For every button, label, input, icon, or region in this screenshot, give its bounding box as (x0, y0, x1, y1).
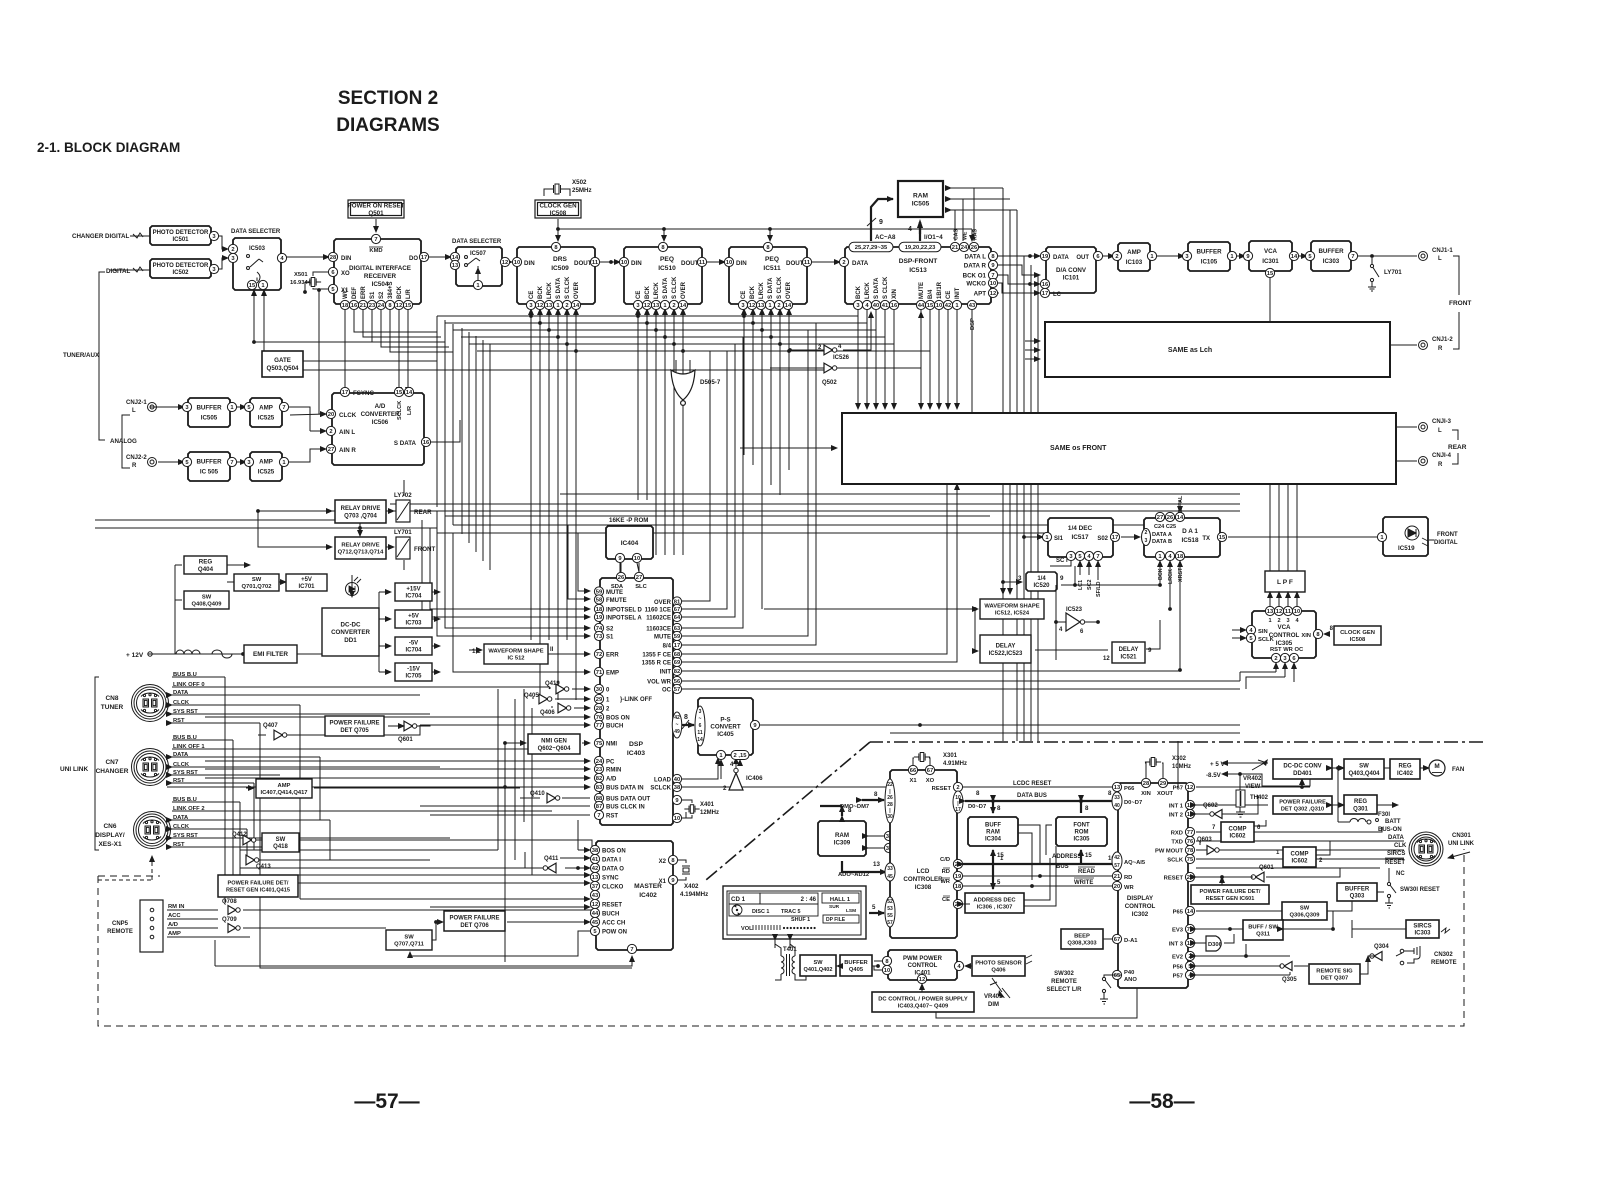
wire x401 wires (686, 800, 692, 803)
svg-text:C/D: C/D (940, 857, 950, 863)
svg-text:REMOTE SIG: REMOTE SIG (1316, 968, 1353, 974)
wire photo det IC501 to selector (219, 236, 228, 249)
wire dcdc right rail (378, 592, 380, 672)
svg-text:RMIN: RMIN (606, 768, 621, 774)
junction collector 1c (742, 314, 746, 318)
svg-text:10: 10 (1294, 609, 1300, 615)
svg-text:2: 2 (777, 303, 780, 309)
svg-text:ERR: ERR (361, 286, 367, 299)
junction clock at IC509 (556, 227, 560, 231)
junction collector 2a (538, 321, 542, 325)
svg-text:INT 2: INT 2 (1169, 813, 1183, 819)
wire WCKO line (996, 283, 1040, 293)
svg-text:S DATA: S DATA (556, 277, 562, 299)
svg-text:7: 7 (230, 460, 233, 466)
svg-text:DIGITAL: DIGITAL (106, 268, 131, 275)
wire right bend down 1 (1239, 672, 1241, 681)
svg-text:DIN: DIN (736, 260, 747, 267)
svg-text:LSM: LSM (846, 908, 856, 914)
buffer Q405b (840, 955, 872, 976)
svg-text:A/D: A/D (168, 922, 178, 928)
pin 18 IC518 bottom (1175, 551, 1184, 560)
svg-text:10: 10 (514, 260, 520, 266)
svg-text:CN302: CN302 (1434, 952, 1453, 958)
wire IC509 bottom pin drop 6 (575, 309, 577, 700)
pins 33-45 IC308 (885, 863, 895, 881)
pin 10 DIN IC510 (619, 257, 628, 266)
svg-text:11: 11 (592, 260, 599, 266)
wire RMIN long (205, 768, 590, 770)
wire bus-on line (1196, 827, 1382, 832)
svg-text:DATA R: DATA R (964, 263, 987, 270)
wire q601 left out (417, 725, 430, 726)
wire data bus to buffram (992, 801, 994, 813)
wire pfd to reg q301 (1332, 804, 1344, 806)
svg-text:DATA: DATA (173, 815, 189, 821)
wire X501 conn a (313, 272, 328, 276)
pin 2 EV2 IC302 (1185, 951, 1194, 960)
svg-text:AQ~AI5: AQ~AI5 (1124, 860, 1146, 866)
svg-text:BUFF / SW: BUFF / SW (1248, 924, 1278, 930)
svg-text:IC308: IC308 (915, 884, 932, 891)
wire X502 to IC508 (544, 189, 548, 196)
wire RAM feed 3 (951, 209, 1017, 211)
svg-text:C24 C25: C24 C25 (1154, 524, 1176, 530)
svg-text:BUS DATA IN: BUS DATA IN (606, 786, 644, 792)
svg-text:X501: X501 (294, 272, 308, 278)
pin 5 IC517 bottom (1075, 551, 1084, 560)
svg-text:RAS: RAS (973, 229, 979, 240)
wire data o master (565, 867, 590, 869)
pin 44 BUCH IC402m (590, 908, 599, 917)
svg-text:17: 17 (955, 807, 961, 813)
wire q305 right (1294, 965, 1308, 967)
sw Q701,Q702 (234, 574, 279, 591)
pin 29 1 IC403 (594, 694, 603, 703)
junction collector 6a (574, 349, 578, 353)
wire IC513 pin43 drop (971, 309, 973, 418)
wire bos on vert2 (577, 820, 579, 850)
wire clock drop to IC510 pin8 (663, 229, 665, 241)
svg-text:SYS RST: SYS RST (173, 833, 198, 839)
svg-text:CE: CE (942, 897, 950, 903)
pin 4 P57 IC302 (1185, 970, 1194, 979)
pin 77 BUCH IC403 (594, 720, 603, 729)
wire ADC LR up (407, 370, 409, 393)
svg-text:Q406: Q406 (540, 710, 555, 716)
pin 37 CLCKO IC402m (590, 881, 599, 890)
wire data bus arrowL (965, 800, 968, 802)
amp IC407,Q414,Q417 (256, 779, 312, 798)
wire X501 to ADC CLCK (319, 290, 326, 414)
wire connector row 18 (172, 846, 262, 848)
svg-text:IC508: IC508 (1350, 637, 1366, 643)
wire central vertical trunk 4 (461, 328, 463, 534)
wire master x1 (678, 877, 686, 880)
svg-text:INIT: INIT (660, 670, 672, 676)
wire mid trunk 524 (523, 689, 525, 822)
wire IC509 bottom pin drop 1 (530, 309, 532, 640)
wire x302 b (1162, 763, 1163, 778)
wire right vertical trunk 1 (1002, 188, 1004, 741)
svg-text:9: 9 (1148, 647, 1152, 654)
wire dcdc to -15 (379, 671, 391, 673)
svg-text:4.194MHz: 4.194MHz (680, 891, 708, 898)
wire reset master (300, 898, 590, 900)
svg-text:+5V: +5V (301, 577, 312, 583)
wire sw418 right (299, 840, 594, 850)
junction ic520 (1073, 583, 1077, 587)
wire X401 to DSP pin10 (677, 812, 686, 818)
svg-text:DELAY: DELAY (1119, 647, 1139, 653)
pin 3 amp lower (244, 457, 253, 466)
svg-text:Q413: Q413 (256, 864, 271, 870)
svg-text:21: 21 (360, 303, 367, 309)
svg-text:DATA SELECTER: DATA SELECTER (231, 229, 281, 235)
wire IC511 bottom pin drop 2 (752, 309, 754, 465)
wire DSP MUTE out (682, 330, 808, 636)
wire ic526 in (790, 349, 824, 351)
wire 5v ic701 line (279, 581, 286, 583)
connector CNJ2-2 (148, 458, 157, 467)
pin 27 SLC (634, 572, 643, 581)
svg-text:14: 14 (1187, 909, 1194, 915)
svg-text:INPOTSEL D: INPOTSEL D (606, 608, 643, 614)
relay switch LY701 (1368, 258, 1379, 291)
svg-text:65: 65 (1114, 973, 1121, 979)
svg-text:11603CE: 11603CE (646, 627, 671, 633)
inverter IC406 (729, 773, 743, 790)
switch inside IC503 (247, 255, 264, 284)
wire connector row 7 (172, 739, 233, 741)
svg-text:82: 82 (596, 776, 602, 782)
svg-text:ERR: ERR (606, 653, 619, 659)
pin 3 IC509 bottom (526, 300, 535, 309)
wire photo det IC502 to selector (219, 258, 228, 269)
svg-text:IC407,Q414,Q417: IC407,Q414,Q417 (260, 790, 307, 796)
pin 9 DATA R IC513 (988, 260, 997, 269)
wire IC404 pin9 down (620, 563, 621, 572)
photo detector IC501 (150, 226, 211, 245)
pin 2 IC103 (1112, 251, 1121, 260)
wire int2 line (1196, 813, 1212, 815)
wire DSP 11602CE out (682, 344, 735, 617)
wire IC513 IO bus to RAM (919, 222, 921, 241)
svg-text:BUS DATA OUT: BUS DATA OUT (606, 797, 651, 803)
wire ADC SDATA out (428, 420, 460, 442)
svg-text:DEF: DEF (352, 287, 358, 299)
svg-text:15: 15 (396, 390, 403, 396)
svg-text:IC305: IC305 (1276, 640, 1293, 647)
svg-text:R: R (1438, 346, 1443, 352)
svg-text:8: 8 (997, 805, 1001, 812)
pin 76 BOS ON IC403 (594, 712, 603, 721)
svg-text:SUR: SUR (829, 904, 840, 910)
svg-text:Q405: Q405 (524, 693, 539, 699)
pin 5 P56 IC302 (1185, 961, 1194, 970)
pin 72 ERR IC403 (594, 649, 603, 658)
wire DSP VOLWR out (682, 680, 1240, 682)
svg-text:IC704: IC704 (405, 648, 422, 654)
wire buch master (430, 906, 590, 908)
wire IC504 bottom pin drop 3 (372, 309, 445, 342)
pin 26b IC513 (969, 242, 978, 251)
svg-text:PEQ: PEQ (765, 256, 779, 263)
svg-text:12: 12 (644, 303, 650, 309)
pin 5 amp upper (244, 402, 253, 411)
svg-text:ROM: ROM (1075, 830, 1089, 836)
svg-text:CN301: CN301 (1452, 833, 1471, 839)
svg-text:14: 14 (1177, 515, 1184, 521)
wire VCA to BUFFER IC303 (1294, 255, 1307, 257)
wire addr to buffram (992, 850, 994, 864)
emi filter (244, 645, 297, 663)
svg-text:CNJI-3: CNJI-3 (1432, 419, 1452, 425)
crystal X402 (682, 866, 690, 874)
wire lcdc reset (963, 786, 1118, 788)
svg-text:DIN: DIN (524, 260, 535, 267)
svg-text:RAM: RAM (835, 832, 849, 839)
comp IC602 a (1221, 822, 1254, 842)
svg-text:RST: RST (173, 778, 185, 784)
svg-text:—58—: —58— (1129, 1090, 1194, 1113)
svg-text:REAR: REAR (1448, 444, 1467, 451)
inverter Q304 (1370, 952, 1382, 961)
pin 65 P40 IC302 (1112, 970, 1121, 979)
pin 26 SDA (616, 572, 625, 581)
svg-text:XES-X1: XES-X1 (98, 841, 122, 848)
svg-text:15: 15 (1085, 853, 1092, 859)
svg-text:DOUT: DOUT (681, 260, 699, 267)
svg-text:IC405: IC405 (717, 731, 734, 738)
wire -15 out (430, 671, 440, 673)
svg-text:SYNC: SYNC (602, 876, 619, 882)
svg-text:8: 8 (1085, 805, 1089, 812)
wire right vertical trunk 2 (1016, 210, 1018, 741)
wire or gate input a (675, 360, 677, 372)
svg-text:72: 72 (596, 652, 602, 658)
ground th402 (1236, 812, 1245, 817)
pin 43 IC513 (967, 300, 976, 309)
wire q601 left in (388, 725, 404, 727)
svg-text:DATA: DATA (173, 690, 189, 696)
wire q601b right (1266, 868, 1340, 877)
dashed cn6 horizontal (98, 879, 152, 881)
pin 3 IC502 (209, 264, 218, 273)
svg-text:15: 15 (1267, 271, 1274, 277)
junction ic523 out (1096, 620, 1100, 624)
svg-text:DATA: DATA (1053, 255, 1069, 261)
pin 19 INPOTSEL A IC403 (594, 612, 603, 621)
svg-text:Q709: Q709 (222, 917, 237, 923)
wire ic305 bottom 6 (1293, 663, 1295, 682)
svg-text:CE: CE (636, 291, 642, 299)
svg-text:BUFFER: BUFFER (1345, 887, 1370, 893)
svg-text:PC: PC (606, 760, 615, 766)
svg-text:Q306,Q309: Q306,Q309 (1290, 913, 1321, 919)
sw Q418 (262, 833, 299, 852)
gate D306 (1206, 936, 1221, 951)
wire central vertical trunk 1 (436, 316, 438, 507)
svg-text:WC: WC (343, 288, 349, 299)
pin 13 IC510 bottom (651, 300, 660, 309)
svg-text:X301: X301 (943, 753, 958, 759)
pin 29 XOUT IC302 (1158, 778, 1167, 787)
wire bottom long link (260, 962, 632, 968)
wire mid bus 9 (560, 493, 1240, 495)
wire vr402 to ddconv (1248, 762, 1268, 764)
pin 18 INT 2 IC302 (1185, 809, 1194, 818)
svg-text:12: 12 (1187, 785, 1193, 791)
pin 20 CE IC308 (953, 899, 962, 908)
wire bos on up (497, 689, 499, 850)
wire cnp5 rm in (167, 909, 218, 911)
svg-text:12: 12 (1276, 609, 1282, 615)
pin 40 IC513 bottom (871, 300, 880, 309)
crystal X502 (548, 184, 566, 194)
svg-text:IC518: IC518 (1181, 537, 1198, 544)
svg-text:AC~A8: AC~A8 (875, 234, 896, 241)
svg-text:VCA: VCA (1277, 624, 1291, 631)
svg-text:LRCK: LRCK (759, 282, 765, 299)
junction wfs feed (973, 607, 977, 611)
delay IC522,IC523 (980, 635, 1031, 663)
svg-text:14: 14 (573, 303, 580, 309)
crystal X302 (1145, 758, 1161, 767)
wire lpf up 1 (1269, 484, 1271, 571)
pin CNP5 RM IN (150, 908, 154, 912)
svg-text:21: 21 (952, 245, 959, 251)
wire +5v arrow (1222, 762, 1248, 764)
svg-text:76: 76 (1187, 839, 1194, 845)
amp IC525 lower (250, 452, 282, 481)
pin 6 OUT IC101 (1093, 251, 1102, 260)
pin 17 8/4 r IC403 (672, 640, 681, 649)
vr402 pot (1252, 760, 1266, 770)
pin 1 IC510 bottom (660, 300, 669, 309)
svg-text:SYS RST: SYS RST (173, 770, 198, 776)
wire pin7 left up (214, 940, 216, 966)
wire connector row 16 (172, 828, 247, 830)
pin 15 SCLCK adc (394, 387, 403, 396)
wire lcd to t401 b (789, 940, 791, 948)
junction LY701 tap (1370, 254, 1374, 258)
address dec IC306,IC307 (965, 893, 1024, 913)
dashed boundary bottom left (98, 849, 1464, 1026)
svg-text:BCK: BCK (1158, 568, 1164, 580)
svg-text:P-S: P-S (720, 716, 730, 723)
squiggle digital (133, 267, 143, 272)
lpf box (1265, 571, 1305, 592)
wire adec out right2 (1024, 846, 1056, 906)
pin 4 SIN IC305 (1246, 625, 1255, 634)
bracket REAR b (1452, 453, 1458, 464)
wire q304 left (1368, 955, 1374, 957)
1/4 dec IC517 (1048, 518, 1113, 557)
wire ADC CLCK left (290, 414, 326, 415)
pin 1 IC105 (1227, 251, 1236, 260)
wire cnp5 acc (167, 918, 218, 920)
pin 7 buffer lower (227, 457, 236, 466)
svg-text:AMP: AMP (1127, 249, 1141, 256)
pin 40 LOAD r IC403 (672, 774, 681, 783)
wire collector bus 6 (477, 350, 930, 352)
cnp5 remote connector (140, 900, 163, 952)
wire central vertical trunk 5 (468, 332, 470, 543)
svg-text:IC502: IC502 (172, 270, 189, 276)
pin 8 IC511 (763, 242, 772, 251)
wire ce to address dec (963, 903, 970, 905)
connector CNJ1-3 (1419, 423, 1428, 432)
svg-text:12: 12 (537, 303, 543, 309)
wire q413 right (258, 859, 430, 861)
wire p40 pin line (1112, 974, 1122, 976)
svg-text:CNJ1-2: CNJ1-2 (1432, 337, 1453, 343)
wire IC510 bottom pin drop 6 (682, 309, 684, 555)
pin 15 IC513 bottom (925, 300, 934, 309)
pin 12 IC507 (500, 257, 509, 266)
pin 10 xtal IC403 (672, 813, 681, 822)
svg-text:NC: NC (1396, 871, 1405, 877)
pin 14 IC510 bottom (678, 300, 687, 309)
photo sensor Q406 (972, 956, 1025, 976)
wire mid bus 10 (95, 519, 360, 521)
p-s convert IC405 (698, 698, 753, 755)
connector CN6 display (134, 812, 171, 849)
bracket FRONT b (1453, 312, 1459, 349)
svg-text:14: 14 (785, 303, 792, 309)
volume bars (753, 925, 780, 930)
pin 88 BUS DATA OUT IC403 (594, 793, 603, 802)
svg-text:Q701,Q702: Q701,Q702 (242, 584, 272, 590)
wire ic526 out (843, 312, 871, 350)
wire pfd ic601 up (1221, 877, 1223, 885)
svg-text:WAVEFORM SHAPE: WAVEFORM SHAPE (488, 648, 543, 654)
svg-text:42: 42 (592, 866, 598, 872)
pin 2 DATA IC513 (839, 257, 848, 266)
pin 83 BUS DATA IN IC403 (594, 782, 603, 791)
wire ic406 out to pin2,15 (739, 760, 741, 764)
wire conn trunk 4 (246, 829, 248, 858)
svg-text:OVER: OVER (681, 281, 687, 299)
junction collector 6b (681, 349, 685, 353)
svg-text:IC509: IC509 (551, 265, 569, 272)
svg-text:D505-7: D505-7 (700, 379, 721, 386)
svg-text:Q305: Q305 (1282, 977, 1297, 983)
svg-text:Q411: Q411 (544, 856, 559, 862)
svg-text:XO: XO (926, 778, 935, 784)
svg-text:CN8: CN8 (105, 695, 118, 702)
svg-text:LINK OFF 2: LINK OFF 2 (173, 806, 205, 812)
wire right vertical trunk 3 (1023, 256, 1025, 741)
pin 78 PW MOUT IC302 (1185, 845, 1194, 854)
svg-text:DC CONTROL / POWER SUPPLY: DC CONTROL / POWER SUPPLY (878, 996, 968, 1002)
svg-text:2-1. BLOCK DIAGRAM: 2-1. BLOCK DIAGRAM (37, 140, 180, 155)
svg-text:SW: SW (404, 934, 414, 940)
wire trunk into wfs top b (1009, 210, 1011, 594)
junction pwm in (876, 964, 880, 968)
vr401 dimmer (990, 978, 1010, 998)
pin 13 SYNC IC402m (590, 872, 599, 881)
svg-text:1,2: 1,2 (472, 648, 481, 655)
wire S1 into DSP (437, 511, 590, 636)
wire photo sensor to pwm (965, 965, 972, 967)
wire DSP 1355FCE out (682, 485, 947, 654)
svg-text:10: 10 (936, 303, 942, 309)
junction X501 drop (317, 288, 321, 292)
wire collector5 left ext (254, 341, 437, 343)
svg-text:P66: P66 (1124, 786, 1135, 792)
